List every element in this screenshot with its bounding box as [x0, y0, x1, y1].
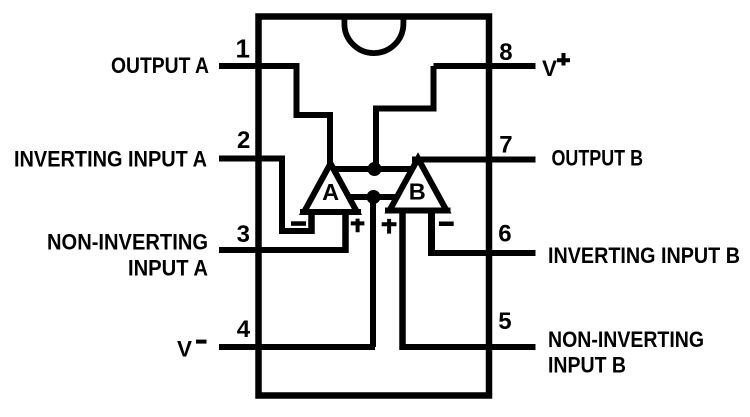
wire V- rail between amps — [345, 194, 400, 200]
svg-text:6: 6 — [498, 221, 511, 248]
op-amp A — [304, 164, 357, 213]
B inverting input stub — [428, 208, 435, 257]
wire pin1 to op-amp A output — [297, 66, 331, 166]
svg-text:3: 3 — [237, 221, 250, 248]
op-amp B base bar — [385, 208, 451, 214]
wire V- center drop to pin4 — [370, 197, 376, 347]
svg-text:B: B — [409, 179, 426, 205]
pin 4 lead — [219, 344, 375, 350]
wire pin8 (V+) staircase down to dot1 — [376, 66, 434, 169]
junction dot1 (V+) — [368, 162, 382, 176]
A non-inverting input stub — [342, 209, 349, 253]
pin 2 lead — [219, 156, 285, 162]
svg-text:5: 5 — [498, 308, 511, 335]
svg-text:4: 4 — [237, 316, 251, 343]
wire V+ rail between amps — [331, 166, 415, 172]
junction dot2 (V-) — [367, 190, 381, 204]
package outline — [259, 17, 490, 396]
pin 3 lead — [219, 247, 349, 253]
pin 1 lead — [219, 63, 300, 69]
op-amp A base bar — [300, 209, 361, 215]
package notch — [344, 16, 403, 53]
B non-inverting input stub — [399, 208, 406, 351]
svg-text:7: 7 — [499, 131, 512, 158]
pin 5 lead — [400, 344, 536, 350]
minus label A — [291, 221, 306, 226]
svg-text:OUTPUT A: OUTPUT A — [111, 53, 209, 78]
svg-text:INVERTING INPUT B: INVERTING INPUT B — [548, 243, 740, 268]
pin 8 lead — [434, 63, 536, 69]
plus label A — [351, 219, 365, 233]
op-amp B — [390, 159, 447, 211]
svg-text:NON-INVERTING: NON-INVERTING — [548, 327, 704, 352]
svg-text:V: V — [542, 56, 557, 81]
pin 6 lead — [428, 250, 536, 256]
svg-text:1: 1 — [236, 34, 250, 64]
svg-text:INPUT A: INPUT A — [128, 256, 208, 281]
svg-text:OUTPUT B: OUTPUT B — [552, 146, 644, 171]
svg-text:A: A — [322, 179, 339, 205]
wire pin2 to inverting input A — [282, 159, 315, 232]
svg-text:NON-INVERTING: NON-INVERTING — [47, 230, 208, 255]
svg-text:INPUT B: INPUT B — [548, 353, 626, 378]
plus label B — [382, 219, 397, 234]
svg-text:2: 2 — [237, 127, 250, 154]
svg-text:INVERTING INPUT A: INVERTING INPUT A — [14, 147, 207, 172]
svg-text:V: V — [177, 337, 192, 362]
minus label B — [439, 222, 454, 227]
A inverting input stub — [308, 209, 315, 234]
pin 7 lead / output B wire — [412, 157, 536, 163]
svg-text:8: 8 — [499, 39, 512, 66]
